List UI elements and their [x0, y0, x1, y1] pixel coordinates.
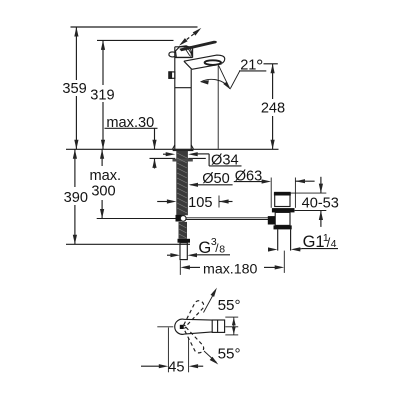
top view: centerline right	[225, 326, 238, 328]
svg-text:°: °	[256, 56, 263, 77]
Ø34 arrows	[166, 152, 176, 156]
pop-up knob	[268, 216, 275, 224]
dim 248	[264, 63, 278, 65]
dim 40-53 vertical	[320, 177, 322, 193]
water stream angled line	[218, 65, 230, 89]
lever motion dashed arrow	[182, 30, 198, 43]
spout top edge	[184, 55, 225, 63]
svg-text:55°: 55°	[218, 346, 241, 363]
shank hatch texture	[177, 153, 187, 238]
svg-text:8: 8	[219, 243, 225, 255]
dim G3/8	[167, 254, 172, 256]
lever dome	[176, 46, 192, 58]
tailpipe	[277, 229, 279, 250]
dim line max300	[101, 149, 103, 166]
top view: dashed lever up	[181, 299, 206, 328]
Ø50 arrow	[189, 183, 199, 187]
svg-text:359: 359	[62, 81, 86, 97]
aerator	[205, 60, 221, 65]
svg-text:Ø34: Ø34	[211, 152, 239, 168]
pop-up cap	[275, 192, 290, 206]
svg-text:55°: 55°	[218, 297, 241, 314]
dim 45 ext lines	[167, 328, 169, 373]
top view: dashed lever down	[181, 325, 206, 354]
dim Ø63 underline	[234, 181, 262, 183]
under-deck washer	[173, 159, 193, 162]
lever blade	[179, 41, 217, 52]
top view: centerline left	[157, 326, 173, 328]
faucet column left edge	[174, 47, 176, 150]
spout inner edge	[184, 61, 192, 69]
pop-up body	[275, 212, 290, 225]
svg-text:G1: G1	[303, 233, 325, 251]
faucet block bottom	[175, 57, 193, 59]
base bottom band	[173, 149, 194, 151]
top view: 55 leader down	[204, 351, 217, 363]
faucet block top	[175, 46, 193, 48]
top view: ref line top	[225, 316, 238, 318]
deck bottom line left	[150, 157, 176, 159]
svg-text:300: 300	[91, 183, 115, 199]
dim 105 right ext	[218, 196, 220, 208]
lever dome shading	[185, 48, 190, 56]
deck bottom line right	[188, 157, 206, 159]
top view: lever rings	[212, 320, 224, 332]
21 deg leader	[230, 71, 240, 89]
tailpipe centerline ext	[283, 251, 285, 273]
dim line 390	[74, 149, 76, 187]
svg-text:390: 390	[64, 190, 88, 206]
svg-text:40-53: 40-53	[302, 196, 339, 212]
svg-text:105: 105	[188, 195, 212, 211]
dim 105 left tail	[157, 201, 168, 203]
dim Ø34 arrows tails	[163, 153, 168, 155]
base flare left	[173, 145, 175, 149]
base flare right	[191, 145, 193, 149]
Ø63 ext lines	[270, 178, 272, 208]
pop-up locknut	[274, 225, 292, 229]
svg-text:max.180: max.180	[203, 262, 258, 278]
ref line 359 top	[71, 26, 198, 28]
dim 45 lines	[141, 365, 159, 367]
pop-up rod	[186, 217, 268, 219]
G3/8 arrows	[170, 253, 180, 257]
svg-text:45: 45	[168, 360, 184, 376]
dim G1 1/4	[269, 249, 271, 251]
dim 40-53 ref top	[290, 192, 326, 194]
rod connector block	[176, 215, 183, 222]
hose tube	[180, 243, 187, 260]
dim max30	[105, 127, 158, 129]
max180 arrows	[180, 265, 190, 269]
rod connector ball	[180, 216, 186, 222]
top view: ref line bottom	[225, 334, 238, 336]
dim Ø34 leader	[208, 154, 210, 166]
105 arrows	[167, 199, 177, 203]
threaded shank	[176, 151, 188, 215]
faucet joint line	[175, 87, 191, 89]
svg-text:Ø63: Ø63	[235, 168, 263, 184]
dim Ø63 right tail	[296, 180, 315, 182]
dim max180	[179, 260, 181, 275]
top view: angle vertical	[233, 317, 235, 335]
G1 1/4 arrows	[268, 247, 278, 251]
side tab	[169, 72, 175, 78]
lever back curl	[169, 52, 176, 57]
svg-text:G: G	[198, 239, 211, 257]
deck top line	[66, 148, 279, 150]
faucet column right edge	[190, 69, 192, 149]
water stream vertical ext	[217, 66, 219, 149]
svg-text:319: 319	[90, 87, 114, 103]
pop-up flange	[272, 208, 295, 212]
faucet block right	[192, 47, 194, 58]
top view: 55 leader up	[204, 291, 216, 313]
spout bottom edge	[192, 64, 222, 69]
svg-text:248: 248	[261, 100, 285, 116]
21 deg underline	[239, 70, 266, 72]
svg-text:21: 21	[240, 58, 256, 74]
svg-text:Ø50: Ø50	[202, 171, 230, 187]
dim line 319	[102, 40, 104, 85]
top view: grip dash	[180, 325, 184, 329]
Ø63 arrows	[262, 179, 272, 183]
ref line 390 bottom	[66, 243, 190, 245]
hose nut	[178, 239, 191, 243]
dim 40-53 ref bottom	[295, 210, 327, 212]
rod extension line left	[97, 218, 176, 220]
40-53 arrows	[319, 184, 323, 194]
55 leader arrowheads	[211, 288, 217, 297]
arrowheads	[73, 27, 323, 368]
shank lower part	[179, 222, 188, 239]
top view angle arrows	[232, 317, 236, 325]
45 arrows	[159, 364, 169, 368]
svg-text:4: 4	[331, 238, 337, 250]
svg-text:max.: max.	[89, 168, 121, 184]
stream angle arc	[201, 79, 230, 87]
dim Ø50 leader	[191, 184, 233, 186]
dim line 359	[75, 27, 77, 80]
svg-text:max.30: max.30	[106, 115, 154, 131]
ref line 319 top	[97, 39, 174, 41]
top view: lever grip	[175, 319, 212, 334]
